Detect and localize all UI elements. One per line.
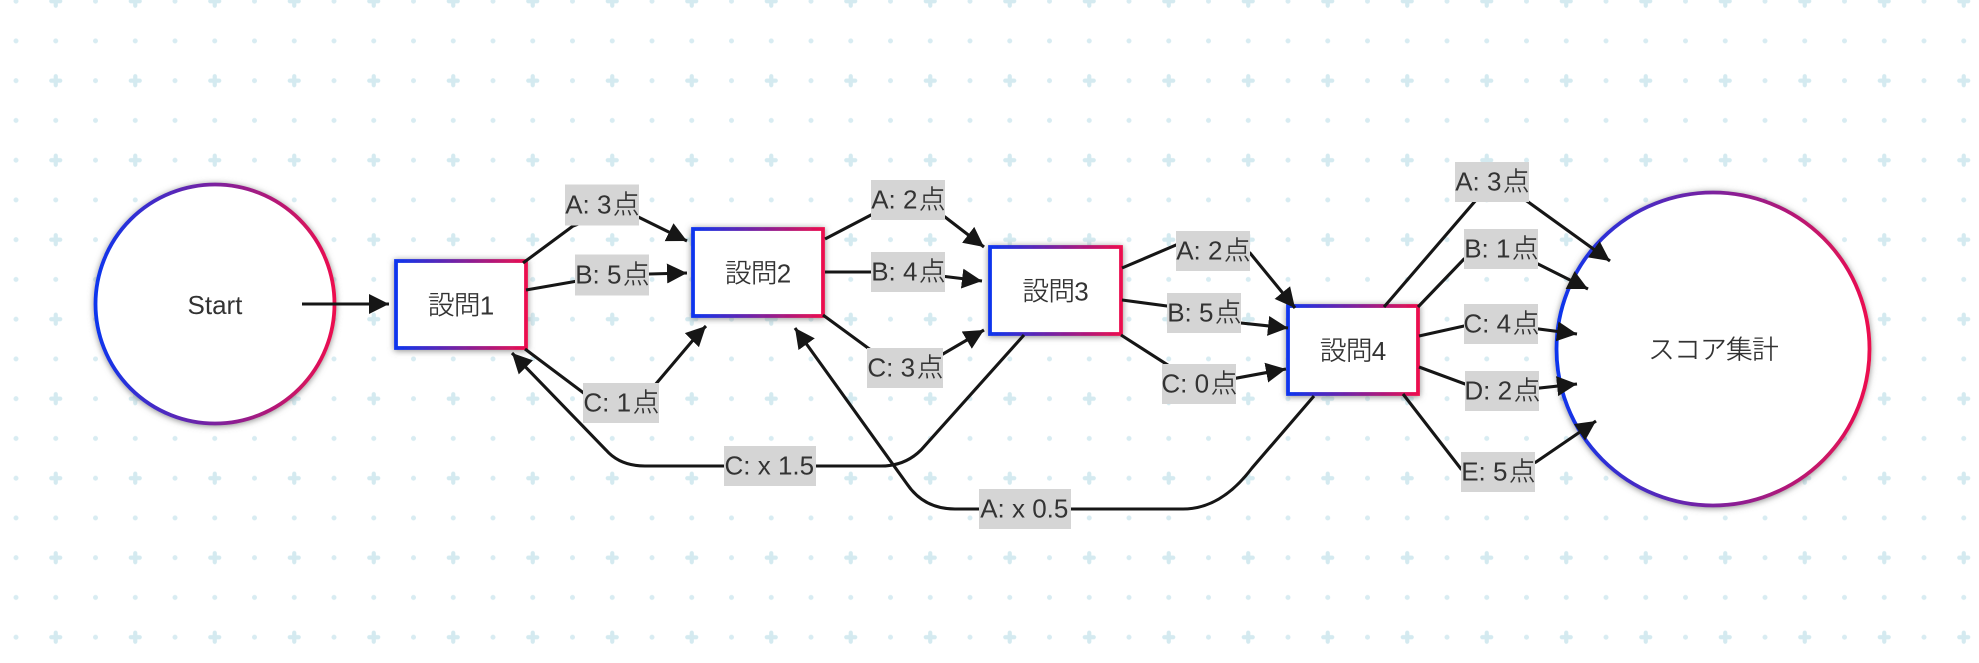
edge 設問1→設問2 (A: 3点) — [523, 208, 687, 263]
edge label E: 5点 — [1461, 452, 1535, 492]
node 設問3 — [990, 247, 1121, 334]
svg-text:C: x 1.5: C: x 1.5 — [725, 451, 815, 481]
svg-text:D: 2: D: 2 — [1464, 376, 1512, 406]
edge label B: 5点 — [1167, 293, 1241, 333]
edge label C: 1点 — [583, 383, 659, 423]
svg-text:B: 4: B: 4 — [871, 257, 917, 287]
edge 設問2→設問3 (A: 2点) — [825, 205, 984, 247]
svg-text:B: 1: B: 1 — [1464, 234, 1510, 264]
edge 設問4→スコア集計 (A: 3点) — [1384, 178, 1610, 307]
node 設問2 — [693, 229, 823, 316]
edge 設問3→設問4 (C: 0点) — [1121, 335, 1286, 385]
node 設問1 — [396, 261, 526, 348]
svg-text:C: 3: C: 3 — [867, 353, 915, 383]
edge label A: x 0.5 — [979, 489, 1071, 529]
svg-text:C: 4: C: 4 — [1463, 309, 1511, 339]
svg-text:Start: Start — [188, 290, 244, 320]
svg-text:A: 2: A: 2 — [1176, 236, 1222, 266]
svg-text:A: 2: A: 2 — [871, 185, 917, 215]
svg-text:B: 5: B: 5 — [575, 260, 621, 290]
edge 設問1→設問2 (C: 1点) — [525, 326, 706, 403]
edge 設問3→設問1 (C: x 1.5) — [512, 335, 1024, 466]
edge 設問2→設問3 (B: 4点) — [825, 272, 982, 281]
edge 設問4→設問2 (A: x 0.5) — [795, 328, 1314, 509]
edge label D: 2点 — [1464, 371, 1539, 411]
edge 設問4→スコア集計 (B: 1点) — [1418, 247, 1588, 307]
edge 設問4→スコア集計 (D: 2点) — [1419, 367, 1577, 392]
edge 設問3→設問4 (B: 5点) — [1122, 300, 1288, 328]
node 設問4 — [1288, 306, 1418, 394]
node スコア集計 (circle) — [1557, 193, 1870, 506]
svg-text:A: x 0.5: A: x 0.5 — [980, 494, 1068, 524]
edge label C: 4点 — [1463, 304, 1538, 344]
svg-text:C: 0: C: 0 — [1161, 369, 1209, 399]
svg-text:E: 5: E: 5 — [1461, 457, 1507, 487]
edge 設問1→設問2 (B: 5点) — [526, 273, 687, 290]
edge label B: 4点 — [871, 252, 945, 292]
svg-text:1: 1 — [480, 290, 494, 320]
edge 設問4→スコア集計 (E: 5点) — [1403, 394, 1596, 477]
edge label C: 3点 — [867, 348, 943, 388]
edge 設問4→スコア集計 (C: 4点) — [1419, 324, 1577, 336]
svg-text:4: 4 — [1372, 336, 1386, 366]
edge label A: 2点 — [871, 180, 945, 220]
edge label B: 1点 — [1464, 229, 1538, 269]
edge label C: x 1.5 — [724, 446, 816, 486]
edge label A: 3点 — [1455, 162, 1529, 202]
svg-text:A: 3: A: 3 — [565, 190, 611, 220]
svg-text:A: 3: A: 3 — [1455, 167, 1501, 197]
edge label C: 0点 — [1161, 364, 1236, 404]
edge label A: 3点 — [565, 185, 639, 226]
svg-text:B: 5: B: 5 — [1167, 298, 1213, 328]
edge label A: 2点 — [1176, 231, 1250, 271]
edge 設問2→設問3 (C: 3点) — [823, 315, 984, 372]
svg-text:3: 3 — [1074, 276, 1088, 306]
edge label B: 5点 — [575, 255, 649, 296]
edge Start→設問1 — [302, 302, 389, 305]
svg-text:C: 1: C: 1 — [583, 388, 631, 418]
svg-text:2: 2 — [777, 258, 791, 288]
edge 設問3→設問4 (A: 2点) — [1122, 240, 1295, 308]
node Start (circle) — [96, 185, 335, 424]
